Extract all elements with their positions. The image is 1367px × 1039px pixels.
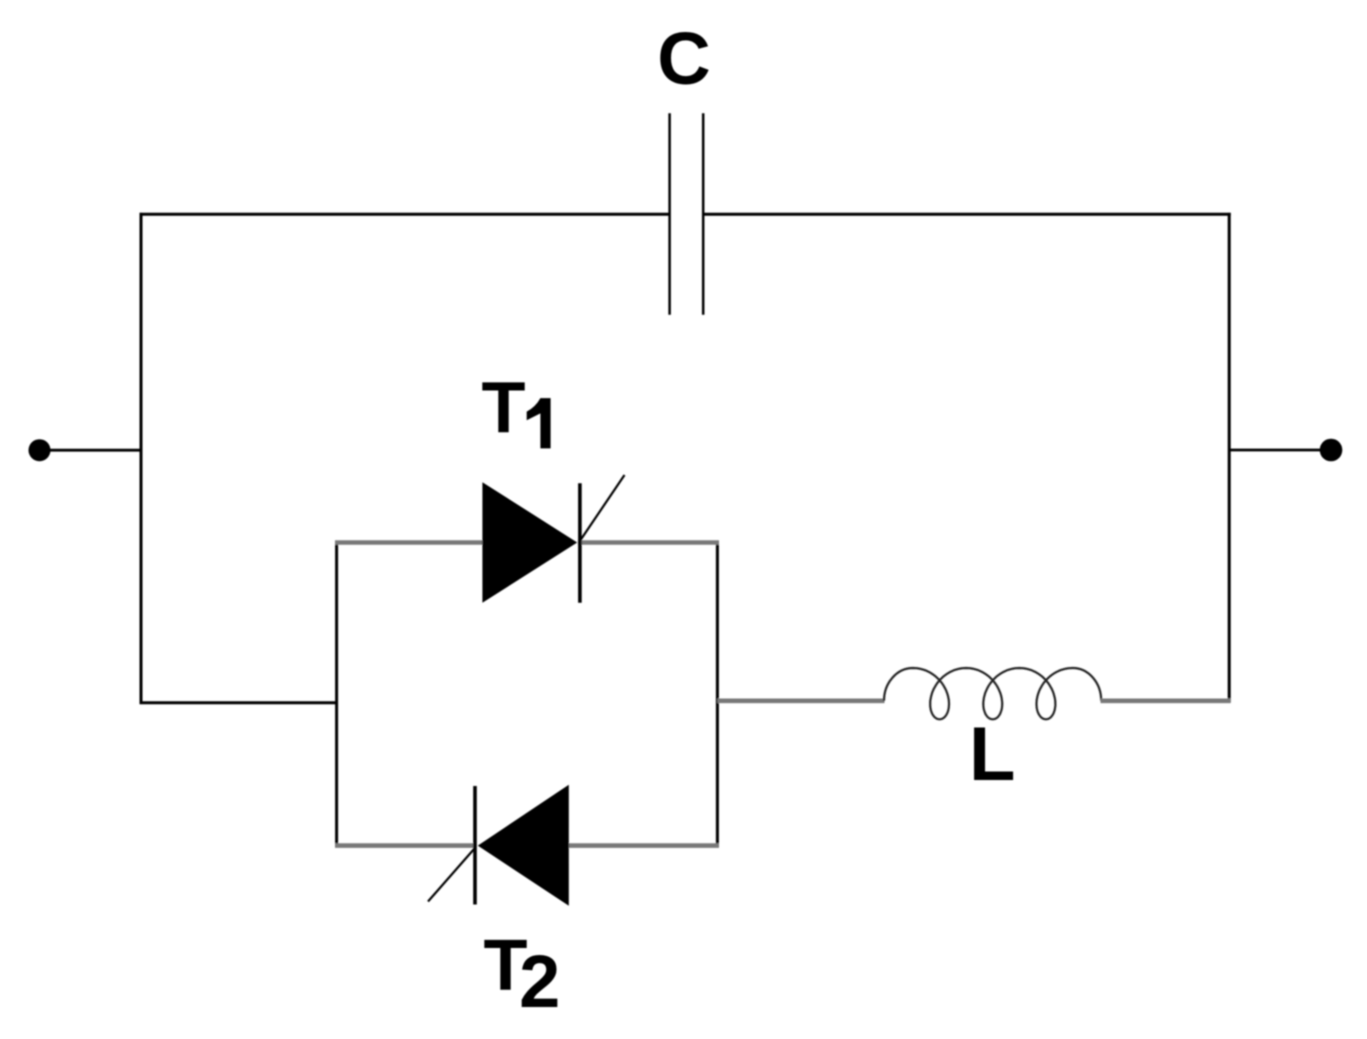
- wire T2 branch left: [335, 843, 476, 848]
- wire left stub: [40, 449, 142, 452]
- thyristor T1: [482, 475, 624, 603]
- capacitor C plate left: [668, 113, 671, 314]
- wire box left vertical: [335, 541, 338, 847]
- svg-text:C: C: [657, 17, 710, 100]
- wire T1 branch left: [335, 540, 490, 545]
- wire bottom left: [140, 701, 337, 704]
- wire top right segment: [703, 213, 1230, 216]
- capacitor C plate right: [702, 113, 705, 314]
- terminal node right: [1320, 439, 1343, 462]
- inductor L: [884, 668, 1101, 719]
- wire top left segment: [140, 213, 670, 216]
- wire T2 branch right: [566, 843, 719, 848]
- svg-text:L: L: [969, 712, 1015, 797]
- wire right stub: [1229, 449, 1331, 452]
- wire box to inductor: [717, 698, 884, 703]
- svg-text:T: T: [482, 369, 526, 449]
- thyristor T2: [428, 785, 569, 906]
- wire inductor to right: [1101, 698, 1231, 703]
- wire box right vertical: [716, 541, 719, 847]
- svg-text:2: 2: [519, 940, 560, 1023]
- wire left vertical: [140, 213, 143, 704]
- terminal node left: [29, 439, 51, 461]
- wire right vertical: [1228, 213, 1231, 702]
- wire T1 branch right: [578, 540, 719, 545]
